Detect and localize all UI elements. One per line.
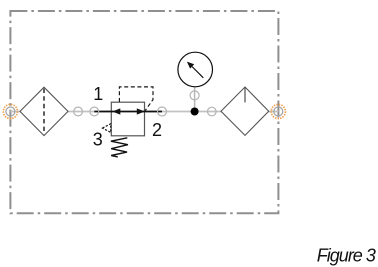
svg-text:Figure 3: Figure 3 [317, 246, 376, 266]
svg-text:3: 3 [93, 129, 103, 149]
svg-text:1: 1 [93, 84, 103, 104]
svg-text:2: 2 [152, 120, 162, 140]
